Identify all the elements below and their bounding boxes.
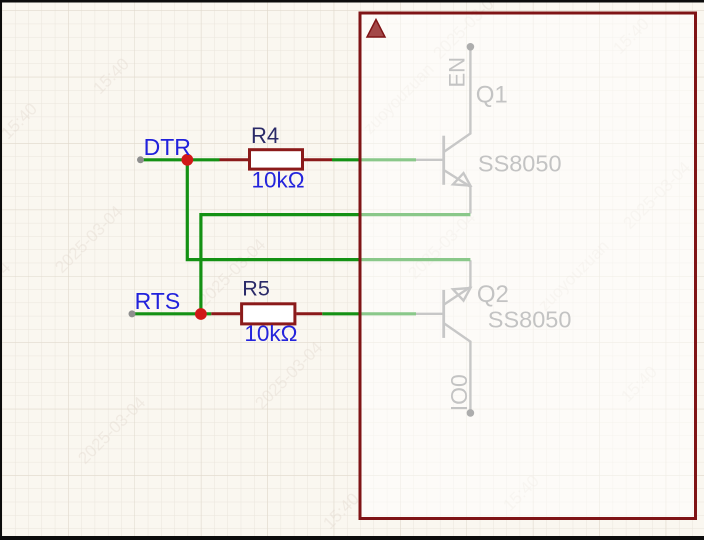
svg-text:10kΩ: 10kΩ — [252, 167, 305, 192]
svg-text:DTR: DTR — [144, 134, 191, 160]
svg-text:R5: R5 — [242, 277, 270, 301]
svg-text:10kΩ: 10kΩ — [244, 321, 297, 346]
svg-text:R4: R4 — [251, 123, 279, 148]
svg-text:RTS: RTS — [135, 288, 181, 314]
